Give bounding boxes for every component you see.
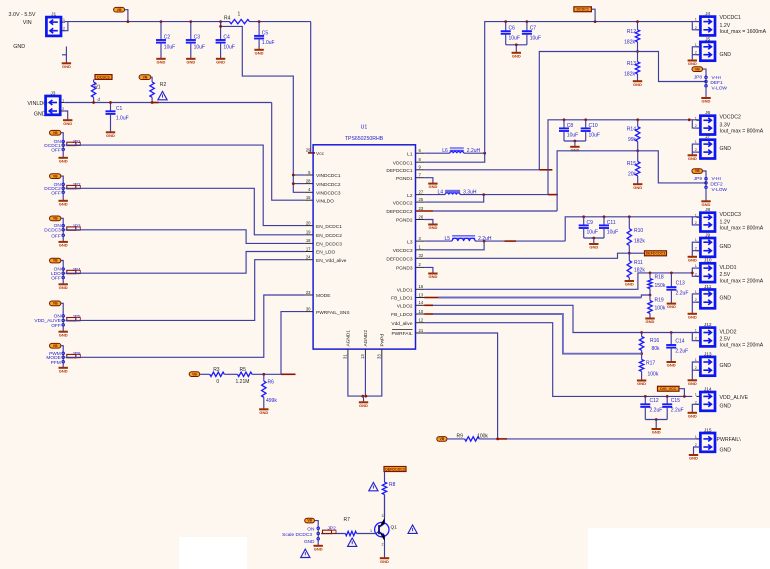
wire C6/C7 join <box>506 44 527 46</box>
svg-text:MODE: MODE <box>316 293 330 299</box>
wire PWRFAIL down <box>424 333 498 439</box>
svg-text:R2: R2 <box>160 82 167 88</box>
junction C8 <box>563 118 566 121</box>
wire J1 pin2 tie <box>63 22 68 31</box>
svg-text:GND: GND <box>59 332 68 337</box>
pin 26 PGND2 <box>396 214 424 223</box>
wire L5 to riser <box>516 240 565 242</box>
svg-text:L3: L3 <box>407 239 413 245</box>
wire J15 pin2 gnd <box>694 447 701 455</box>
svg-text:J9: J9 <box>705 232 710 238</box>
svg-text:10: 10 <box>419 309 424 314</box>
svg-text:VB: VB <box>117 8 122 12</box>
svg-text:GND: GND <box>255 50 264 55</box>
svg-text:2: 2 <box>695 366 697 370</box>
net label at R3 <box>189 372 200 377</box>
resistor R1 <box>91 82 100 103</box>
JP5 label OFF <box>51 323 61 329</box>
pin 20 EN_DCDC1 <box>305 220 342 229</box>
svg-text:EN_LDO: EN_LDO <box>316 250 335 256</box>
resistor R10 182k <box>627 217 645 253</box>
ground JP2 <box>59 201 68 207</box>
capacitor C12 2.2uF <box>640 396 662 419</box>
svg-text:100k: 100k <box>648 372 659 378</box>
wire to JP4 <box>61 261 63 270</box>
svg-text:1.21M: 1.21M <box>236 379 250 385</box>
label VIN <box>23 20 32 26</box>
JP1 designator <box>72 139 81 145</box>
svg-text:VB: VB <box>53 259 58 263</box>
svg-text:EN_DCDC2: EN_DCDC2 <box>316 233 342 239</box>
wire PGND2 to ground <box>424 220 433 225</box>
pin 18 EN_DCDC3 <box>305 238 342 247</box>
wire JP2 to EN_DCDC2 <box>66 188 305 235</box>
net label VB at VIN rail <box>114 7 125 12</box>
junction J10 tie <box>691 272 694 275</box>
svg-text:C6: C6 <box>509 26 516 32</box>
svg-text:13: 13 <box>419 292 424 297</box>
wire GND post vertical <box>65 47 67 64</box>
JP3 label OFF <box>51 233 61 239</box>
JP5 label VDD_ALIVE <box>34 318 60 324</box>
pin 25 VDCDC2 <box>393 197 424 206</box>
svg-text:VINLDO: VINLDO <box>316 198 334 204</box>
junction R14 top <box>636 118 639 121</box>
svg-text:EN_DCDC1: EN_DCDC1 <box>316 224 342 230</box>
svg-text:C9: C9 <box>587 220 594 226</box>
capacitor C2 10uF <box>156 22 175 59</box>
svg-text:3.0V - 5.5V: 3.0V - 5.5V <box>9 12 36 18</box>
svg-text:GND: GND <box>720 244 732 250</box>
ground PGND2 <box>428 225 437 231</box>
svg-text:GND: GND <box>652 430 661 435</box>
svg-text:JP9: JP9 <box>694 176 703 182</box>
JP4 label OFF <box>51 276 61 282</box>
jumper shunt at JP5 <box>67 318 81 321</box>
inductor L4 3.3uH <box>438 190 477 196</box>
svg-text:EN_Vdd_alive: EN_Vdd_alive <box>316 258 347 264</box>
svg-text:GND: GND <box>570 147 579 152</box>
wire JP2 to ground <box>317 539 319 546</box>
svg-text:1: 1 <box>695 43 697 47</box>
wire to JP3 <box>61 218 63 225</box>
svg-text:JP2: JP2 <box>328 525 337 531</box>
wire VINDCDC branch <box>221 22 305 193</box>
wire Vcc vertical drop <box>308 22 311 153</box>
wire L1 pin to L6 <box>424 152 450 154</box>
pin 33 PwPd <box>376 334 385 359</box>
svg-text:DCDC3: DCDC3 <box>44 228 61 234</box>
wire pill to R9 <box>447 438 465 440</box>
ground JP1 <box>59 158 68 164</box>
svg-text:R1: R1 <box>94 85 101 91</box>
ground R13 <box>633 81 642 87</box>
ground J15 <box>689 455 698 461</box>
svg-text:24: 24 <box>306 255 311 260</box>
capacitor C1 1.0uF <box>106 103 129 133</box>
junction C8/C10 mid <box>574 140 577 143</box>
wire AGND1/PwPd join <box>348 358 382 397</box>
svg-text:DCDC3: DCDC3 <box>97 75 109 79</box>
pin 17 EN_LDO <box>305 246 336 255</box>
wire PGND3 to ground <box>424 267 433 273</box>
wire J5 pin2 tie <box>692 54 700 56</box>
net label VB at JP8 <box>692 67 703 72</box>
wire L6 to node <box>464 152 485 154</box>
resistor R16 80k <box>639 333 660 354</box>
svg-text:VLDO1: VLDO1 <box>397 288 413 294</box>
svg-text:J3: J3 <box>50 90 55 96</box>
svg-text:V-HI: V-HI <box>712 75 721 81</box>
svg-text:R5: R5 <box>240 367 247 373</box>
pin 21 PWRFAIL <box>391 328 424 337</box>
JP2 designator <box>72 182 81 188</box>
svg-text:OFF: OFF <box>51 276 61 282</box>
JP2 label OFF <box>51 191 61 197</box>
svg-text:R6: R6 <box>268 380 275 386</box>
svg-text:GND: GND <box>688 257 697 262</box>
pin 19 EN_DCDC2 <box>305 230 342 239</box>
connector J5 GND <box>695 36 731 60</box>
wire DEFDCDC1 feedback <box>539 52 637 170</box>
capacitor C9 10uF <box>579 217 598 238</box>
svg-text:VDCDC3: VDCDC3 <box>720 212 741 218</box>
junction R16 top <box>640 331 643 334</box>
net label DEFDCDC3 <box>645 251 667 256</box>
junction C15 top <box>666 395 669 398</box>
resistor R8 <box>382 482 395 518</box>
svg-text:VB: VB <box>192 372 197 376</box>
svg-text:OFF: OFF <box>51 323 61 329</box>
svg-text:GND: GND <box>428 184 437 189</box>
wire J11 tie to gnd <box>692 294 700 314</box>
svg-text:GND: GND <box>59 201 68 206</box>
wire DEFDCDC1 pin <box>424 169 539 171</box>
pin 3 L3 <box>407 236 424 245</box>
svg-text:GND: GND <box>637 381 646 386</box>
svg-text:10uF: 10uF <box>509 36 520 42</box>
svg-text:GND: GND <box>512 53 521 58</box>
wire pill to R3 <box>200 373 210 375</box>
ground C14 <box>667 362 676 368</box>
svg-text:Iout_max = 800mA: Iout_max = 800mA <box>720 128 764 134</box>
svg-text:1: 1 <box>695 264 697 268</box>
svg-text:20k: 20k <box>628 171 637 177</box>
JP4 label LDO <box>51 271 61 277</box>
svg-text:GND: GND <box>314 546 323 551</box>
svg-text:VB: VB <box>440 437 445 441</box>
resistor R13 182k <box>624 52 640 82</box>
wire VLDO2 pin <box>433 305 692 332</box>
svg-text:OFF: OFF <box>51 191 61 197</box>
wire VB label to VIN rail <box>125 10 128 22</box>
ground C3 <box>186 59 195 65</box>
wire L2 pin to L4 <box>424 194 445 196</box>
svg-text:Vdd_alive: Vdd_alive <box>391 321 412 327</box>
connector J10 VLDO1 <box>695 258 764 285</box>
wire DEFDCDC2 feedback <box>557 151 638 211</box>
svg-text:1.2V: 1.2V <box>720 23 731 29</box>
svg-text:ON: ON <box>307 527 315 533</box>
wire J7 tie to gnd <box>692 144 700 155</box>
wire J6 pins tie <box>692 120 700 128</box>
svg-text:GND: GND <box>688 314 697 319</box>
wire node to PWRFAIL_SNS pin <box>281 312 305 375</box>
wire to VINDCDC1 pin <box>293 174 305 176</box>
svg-text:V-HI: V-HI <box>712 176 721 182</box>
svg-text:GND: GND <box>720 448 732 454</box>
svg-text:80k: 80k <box>652 346 661 352</box>
capacitor C5 1.0uF <box>254 22 274 50</box>
svg-text:1: 1 <box>695 435 697 439</box>
svg-text:1: 1 <box>695 358 697 362</box>
red net stub FB_LDO1 <box>424 297 439 299</box>
svg-text:C2: C2 <box>164 35 171 41</box>
svg-text:GND: GND <box>702 99 711 104</box>
net label DCDC3 above R1 <box>95 75 112 80</box>
junction label tap <box>683 395 686 398</box>
JP1 label DCDC1 <box>44 143 61 149</box>
capacitor C14 2.2uF <box>666 333 688 362</box>
svg-text:GND: GND <box>625 282 634 287</box>
svg-text:10uF: 10uF <box>194 44 205 50</box>
wire VDCDC1 rail <box>485 22 693 154</box>
svg-text:VB: VB <box>53 131 58 135</box>
svg-text:L2: L2 <box>407 193 413 199</box>
svg-text:499k: 499k <box>266 398 277 404</box>
label GND input <box>13 44 25 50</box>
red net stub VDCDC3 <box>504 240 516 242</box>
svg-text:99k: 99k <box>628 137 637 143</box>
net label VB above R2 <box>139 75 151 80</box>
svg-text:R15: R15 <box>627 161 636 167</box>
jumper shunt at JP2 <box>67 185 81 188</box>
pin 15 VINLDO <box>305 195 334 204</box>
junction L6 output <box>483 152 486 155</box>
junction J6 tie <box>688 118 691 121</box>
GND post pin tick <box>62 54 66 56</box>
junction C11 <box>603 215 606 218</box>
wire JP2 to R7 <box>321 533 345 535</box>
svg-text:Vcc: Vcc <box>316 151 325 157</box>
pin 23 DEFDCDC2 <box>386 206 424 215</box>
svg-text:EN_DCDC3: EN_DCDC3 <box>316 242 342 248</box>
net label above JP1 <box>50 130 61 135</box>
svg-text:GND: GND <box>359 403 368 408</box>
ground R17 <box>637 381 646 387</box>
wire DCDC1 label to rail <box>591 9 595 21</box>
svg-text:J14: J14 <box>704 386 712 392</box>
svg-text:GND: GND <box>688 413 697 418</box>
resistor R3 0 <box>210 367 225 385</box>
red net stub PWRFAIL <box>498 438 508 440</box>
pin 30 PWRFAIL_SNS <box>305 306 350 315</box>
resistor R15 20k <box>627 151 640 184</box>
ground J5 <box>688 61 697 67</box>
svg-text:26: 26 <box>419 214 424 219</box>
svg-text:10uF: 10uF <box>164 44 175 50</box>
svg-text:VDCDC1: VDCDC1 <box>393 160 413 166</box>
svg-text:TPS650250RHB: TPS650250RHB <box>345 136 384 142</box>
resistor R5 1.21M <box>236 367 253 385</box>
svg-text:2.2uF: 2.2uF <box>676 290 689 296</box>
svg-text:Iout_max = 800mA: Iout_max = 800mA <box>720 226 764 232</box>
no-ERC triangle right of Q1 <box>408 525 417 533</box>
JP5 designator <box>72 314 81 320</box>
svg-text:VIN: VIN <box>23 20 32 26</box>
svg-text:PWRFAIL\: PWRFAIL\ <box>717 437 742 443</box>
ground R6 <box>259 409 268 415</box>
svg-text:GND: GND <box>216 59 225 64</box>
connector J11 GND <box>695 284 731 308</box>
svg-text:2: 2 <box>382 543 384 547</box>
resistor R6 499k <box>262 374 278 409</box>
wire JP5 to ground <box>62 325 64 332</box>
svg-text:2: 2 <box>695 221 697 225</box>
svg-text:GND: GND <box>720 296 732 302</box>
svg-text:VDD_ALIVE: VDD_ALIVE <box>720 395 749 401</box>
svg-text:GND: GND <box>157 59 166 64</box>
ground C4 <box>216 59 225 65</box>
svg-text:2: 2 <box>62 107 64 111</box>
svg-text:Q1: Q1 <box>391 525 398 531</box>
svg-text:30: 30 <box>306 306 311 311</box>
wire label to VDD_ALIVE rail <box>679 389 684 397</box>
wire JP3 to EN_DCDC3 <box>66 230 305 244</box>
wire PWRFAIL to J15 <box>507 438 700 440</box>
junction R16/R17 FB_LDO2 <box>640 352 643 355</box>
wire pill to JP2 <box>315 521 319 529</box>
svg-text:PGND1: PGND1 <box>396 176 413 182</box>
svg-text:GND: GND <box>428 274 437 279</box>
svg-text:V-LOW: V-LOW <box>712 86 728 92</box>
ground C9/C11 <box>589 244 598 250</box>
svg-text:GND: GND <box>720 146 732 152</box>
JP2 label GND <box>304 539 315 545</box>
svg-text:J8: J8 <box>705 207 710 213</box>
svg-text:100k: 100k <box>655 306 666 312</box>
svg-text:1: 1 <box>695 18 697 22</box>
junction DCDC1 label tap <box>594 20 597 23</box>
svg-text:C14: C14 <box>675 339 684 345</box>
svg-text:VB: VB <box>53 174 58 178</box>
jumper JP6 (PWM/PFM mode) <box>62 352 65 363</box>
svg-text:1: 1 <box>62 99 64 103</box>
wire to VINDCDC2 pin <box>293 183 305 185</box>
svg-text:PwPd: PwPd <box>380 334 386 347</box>
svg-text:R11: R11 <box>634 260 643 266</box>
net label above JP5 <box>50 301 61 306</box>
resistor R17 100k <box>639 354 658 381</box>
svg-text:10uF: 10uF <box>589 133 600 139</box>
svg-text:32: 32 <box>419 253 424 258</box>
wire J4 pins tie <box>692 22 700 30</box>
svg-text:PGND2: PGND2 <box>396 218 413 224</box>
svg-text:R13: R13 <box>627 61 636 67</box>
wire R2 top lead <box>151 77 152 82</box>
net label above JP6 <box>50 343 61 348</box>
svg-text:GND: GND <box>59 285 68 290</box>
svg-text:2: 2 <box>695 298 697 302</box>
ground C2 <box>156 59 165 65</box>
svg-text:FB_LDO2: FB_LDO2 <box>391 312 413 318</box>
svg-text:2: 2 <box>695 400 697 404</box>
JP6 label PFM <box>51 360 61 366</box>
pin 13 AGND2 <box>360 330 369 359</box>
red net stub VLDO2 <box>424 304 433 306</box>
ground R15 <box>633 184 642 190</box>
JP8 label V-HI <box>712 75 721 81</box>
svg-text:Iout_max = 200mA: Iout_max = 200mA <box>720 279 764 285</box>
wire to ground C8/C10 <box>574 141 576 147</box>
pin 1 VDCDC3 <box>393 245 424 254</box>
svg-text:DEFDCDC3: DEFDCDC3 <box>646 252 666 256</box>
svg-text:J5: J5 <box>705 36 710 42</box>
svg-text:GND: GND <box>702 202 711 207</box>
junction L5 output <box>483 240 486 243</box>
svg-text:DEFDCDC1: DEFDCDC1 <box>386 168 412 174</box>
svg-text:20: 20 <box>306 220 311 225</box>
svg-text:GND: GND <box>689 456 698 461</box>
svg-text:J4: J4 <box>705 11 710 17</box>
wire VDCDC3 tie <box>424 241 484 250</box>
wire J13 pin2 tie <box>692 369 700 371</box>
svg-text:R10: R10 <box>634 228 643 234</box>
svg-text:GND: GND <box>720 363 732 369</box>
pin 6 L1 <box>407 148 424 157</box>
svg-text:C10: C10 <box>589 123 598 129</box>
JP3 designator <box>72 224 81 230</box>
svg-text:DEF2: DEF2 <box>710 181 723 187</box>
junction R14/R15 DEF2 <box>636 149 639 152</box>
wire L5 out <box>475 240 504 242</box>
wire C9/C11 bottoms <box>584 237 604 239</box>
net label above JP4 <box>50 258 61 263</box>
wire J9 tie to gnd <box>692 242 700 257</box>
junction C3 <box>189 20 192 23</box>
svg-text:10uF: 10uF <box>530 36 541 42</box>
connector J6 VDCDC2 <box>695 110 764 134</box>
net label above JP2 <box>50 174 61 179</box>
svg-text:1: 1 <box>695 140 697 144</box>
wire DEF1 to JP8 center <box>638 52 707 82</box>
ground JP8 <box>701 98 710 104</box>
svg-text:DEF1: DEF1 <box>710 80 723 86</box>
wire C8/C10 bottoms <box>564 140 586 142</box>
svg-text:GND: GND <box>259 410 268 415</box>
svg-text:R3: R3 <box>213 367 220 373</box>
JP9 designator <box>694 176 703 182</box>
wire DEFDCDC3 label to R8 <box>384 472 386 483</box>
svg-text:2: 2 <box>695 247 697 251</box>
junction VINDCDC2 <box>292 182 295 185</box>
svg-text:R17: R17 <box>646 361 655 367</box>
junction R18 top <box>649 272 652 275</box>
wire to ground C12/C15 <box>655 420 657 430</box>
svg-text:1: 1 <box>695 329 697 333</box>
svg-text:VLDO2: VLDO2 <box>720 329 737 335</box>
resistor R7 <box>344 517 357 536</box>
junction C12/C15 mid <box>655 418 658 421</box>
jumper JP2 (DCDC2 enable) <box>62 183 65 194</box>
capacitor C13 2.2uF <box>666 273 688 304</box>
svg-text:JP8: JP8 <box>694 75 703 81</box>
junction C10 <box>584 118 587 121</box>
ground JP2 bottom <box>314 546 323 552</box>
ground JP5 <box>59 332 68 338</box>
pin 2 PGND3 <box>396 262 424 271</box>
wire JP3 to ground <box>62 235 64 242</box>
